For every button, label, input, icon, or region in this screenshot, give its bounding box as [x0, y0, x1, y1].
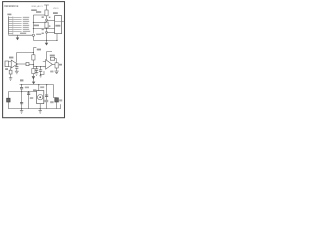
wire A	[33, 14, 45, 16]
feedback resistor R6	[50, 57, 54, 60]
wire C	[33, 28, 54, 30]
resistor R1	[45, 10, 48, 16]
net name 9	[20, 33, 26, 34]
connector pin 8	[9, 31, 13, 33]
output wire	[17, 63, 26, 65]
wire power to R1	[46, 5, 48, 10]
pin stub 1	[13, 17, 21, 19]
net name 7	[23, 29, 29, 30]
node dot	[33, 22, 34, 23]
IC U1 box	[55, 16, 62, 34]
net label text	[37, 49, 41, 51]
resistor R3	[32, 55, 35, 60]
connector pin 3	[9, 21, 13, 23]
wire B	[33, 22, 46, 24]
ground G8	[39, 75, 42, 78]
wire node to U1 pin1	[47, 20, 55, 22]
wire D	[47, 32, 55, 34]
wire down to opamp	[16, 53, 18, 63]
cap branch 1 stub	[36, 67, 38, 69]
connector pin 9	[9, 33, 13, 35]
node dot	[46, 31, 48, 33]
value text 47	[5, 68, 8, 70]
rail right elbow	[54, 85, 57, 98]
diode D1	[9, 70, 12, 74]
load resistor R7	[55, 63, 58, 68]
crystal Y1	[55, 98, 59, 102]
ground G2	[9, 78, 12, 81]
net name 1	[23, 17, 29, 18]
border frame	[3, 2, 65, 118]
cap C2 to ground	[36, 70, 38, 72]
connector pin 2	[9, 19, 13, 21]
capacitor C1 plate	[15, 66, 18, 68]
opamp U3 label	[50, 55, 55, 57]
node dot	[28, 91, 29, 92]
net name 5	[23, 25, 29, 26]
ground arrow stub	[17, 35, 19, 37]
net label RAC0	[31, 9, 37, 11]
node dot	[46, 28, 47, 29]
ground stub mid	[46, 40, 48, 42]
connector pin 4	[9, 23, 13, 25]
vertical net wire	[32, 15, 34, 33]
opamp U3	[46, 60, 53, 70]
capacitor C1 plate	[15, 67, 18, 69]
ground arrow mid	[45, 43, 48, 46]
left drop	[7, 92, 9, 99]
U1 ground stub	[56, 34, 58, 41]
diode to ground	[10, 74, 12, 78]
input wire +	[8, 60, 11, 62]
cap C3 to node	[40, 71, 42, 74]
sensor X1	[5, 61, 8, 67]
node dot	[46, 19, 48, 21]
cap branch C5	[21, 92, 23, 109]
ground G7	[39, 111, 42, 114]
feed wire	[38, 85, 40, 91]
connector pin 7	[9, 29, 13, 31]
bus right stub	[60, 104, 62, 108]
pin stub 5	[13, 25, 21, 27]
Y1 to bus	[56, 102, 58, 109]
feedback wire	[41, 71, 44, 75]
power rail tick	[44, 4, 49, 6]
input wire -	[8, 65, 11, 67]
node dot	[38, 84, 39, 85]
node dot	[36, 66, 37, 67]
output wire	[52, 63, 56, 65]
svg-text:REFERENCE: REFERENCE	[4, 5, 19, 8]
box out wire	[39, 104, 41, 109]
ground G7 stub	[39, 109, 41, 111]
feedback elbow	[47, 52, 52, 60]
pin stub 7	[13, 29, 21, 31]
resistor R2	[45, 22, 48, 28]
net name 8	[23, 31, 30, 32]
ground G5	[55, 71, 59, 74]
ground arrow	[16, 38, 19, 41]
capacitor C3 plates	[39, 70, 42, 71]
opamp U2 label	[9, 57, 13, 59]
ground bus	[33, 39, 57, 41]
capacitor C5 plates	[20, 102, 23, 103]
ground G3	[35, 73, 38, 76]
U1 right pin wire	[62, 21, 65, 23]
main wire	[8, 91, 36, 93]
node dot	[33, 28, 34, 29]
series component R4	[26, 63, 29, 66]
supply rail	[19, 84, 53, 86]
node dot	[21, 84, 22, 85]
value text	[42, 29, 44, 30]
wire circle to bus	[32, 36, 34, 40]
bottom bus	[8, 108, 60, 110]
wire R6 to output	[55, 59, 57, 65]
diode D1 lead	[10, 67, 12, 70]
pin number text	[49, 25, 51, 26]
value text	[25, 87, 29, 89]
motor dot	[39, 96, 41, 98]
ground G6 stub	[21, 109, 23, 111]
C6 value text	[30, 97, 33, 99]
node dot	[21, 91, 22, 92]
wire R4 to rail	[29, 64, 33, 66]
power arrow head	[32, 82, 35, 85]
connector pin 6	[9, 27, 13, 29]
capacitor C7 plates	[45, 95, 48, 96]
node dot	[40, 108, 41, 109]
Y1 label left	[50, 101, 53, 103]
U1 label inside	[55, 25, 60, 27]
node dot	[46, 84, 47, 85]
wire R2 to bus	[46, 28, 48, 40]
node dot	[40, 74, 41, 75]
connector J1 label	[7, 14, 11, 16]
label U1	[53, 12, 58, 14]
R7 value text	[50, 71, 53, 73]
net name 2	[23, 19, 29, 20]
vertical rail mid	[32, 48, 34, 69]
ladder bus	[33, 66, 45, 68]
wire opamp to rail	[17, 52, 34, 54]
motor circle	[38, 95, 43, 100]
label U6	[33, 89, 36, 91]
net name 6	[23, 27, 29, 28]
net name 3	[23, 21, 29, 22]
node dot	[40, 66, 41, 67]
value text	[42, 33, 44, 34]
cap branch 2 stub	[40, 67, 42, 70]
C7 value text	[44, 100, 48, 102]
cap branch C4 stub	[21, 85, 23, 88]
connector pin 1	[9, 17, 13, 19]
feed text	[40, 86, 44, 88]
opamp U2	[11, 60, 17, 68]
net name 4	[23, 23, 29, 24]
pin stub 2	[13, 19, 21, 21]
wire shield row	[8, 34, 32, 36]
connector pin 5	[9, 25, 13, 27]
svg-text:VDDD: VDDD	[53, 8, 59, 10]
cap branch C7	[46, 85, 48, 109]
svg-text:VREF_ADC1: VREF_ADC1	[31, 5, 43, 8]
pin stub 4	[13, 23, 21, 25]
wire R5 to ground	[32, 74, 34, 77]
power arrow stem	[33, 78, 35, 82]
capacitor C2 plates	[35, 69, 38, 70]
node circle	[32, 34, 34, 36]
wire R1 to node	[46, 16, 48, 22]
label +5V	[20, 79, 23, 81]
value text	[42, 16, 44, 18]
cap branch C6	[28, 92, 30, 109]
ground arrow G4	[32, 76, 35, 79]
FB1 to bus	[7, 102, 9, 109]
resistor R5	[32, 69, 35, 74]
Y1 label right	[59, 99, 62, 101]
node dot	[33, 52, 34, 53]
capacitor C6 plates	[27, 93, 30, 94]
node dot	[56, 64, 57, 65]
ground G1	[15, 71, 19, 74]
regulator U6 box	[37, 91, 44, 104]
pin stub 3	[13, 21, 21, 23]
net stub tick	[33, 47, 36, 49]
pin stub 8	[13, 31, 21, 33]
pin stub 6	[13, 27, 21, 29]
ferrite FB1	[7, 98, 11, 102]
net label IN1	[36, 11, 41, 13]
R7 to ground	[56, 68, 58, 71]
node dot	[21, 108, 22, 109]
ground G6	[20, 111, 23, 114]
node dot	[33, 64, 34, 65]
node dot	[56, 40, 57, 41]
node dot	[16, 63, 17, 64]
pin number text	[49, 17, 51, 18]
node dot	[46, 40, 47, 41]
cap branch stub	[16, 64, 18, 66]
U1 internal divider	[55, 21, 62, 23]
input stub -	[43, 66, 46, 68]
connector J1 body	[7, 16, 9, 34]
R7 label	[59, 64, 62, 66]
cap to ground	[16, 68, 18, 71]
input stub +	[43, 61, 46, 63]
label RAC	[34, 25, 39, 27]
C4 to wire	[21, 89, 23, 92]
capacitor C4 plates	[20, 88, 23, 89]
